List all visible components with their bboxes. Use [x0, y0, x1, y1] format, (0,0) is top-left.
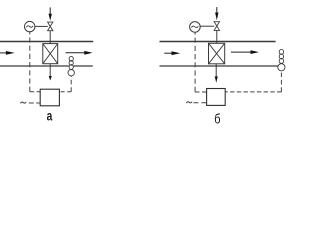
- heat-carrier arrow from exchanger down: [215, 64, 218, 83]
- wire: duct top line (left): [0, 41, 93, 43]
- control line (dashed) from motor down: [194, 32, 196, 92]
- flow arrow outlet (right duct): [231, 50, 259, 54]
- power "~" label at controller input: [20, 102, 26, 104]
- wire: duct bottom line (right): [160, 65, 279, 67]
- heat exchanger W2 (crossed box): [209, 43, 225, 64]
- wire: duct bottom line (left): [0, 65, 93, 67]
- wire: valve stem down to heat exchanger: [216, 30, 218, 43]
- flow arrow inlet (right duct): [164, 51, 180, 55]
- flow arrow inlet (left duct): [0, 51, 15, 55]
- heat exchanger W1 (crossed box): [43, 44, 58, 64]
- control line (dashed) sensor to controller: [225, 91, 281, 93]
- controller box A2: [207, 89, 226, 106]
- control line (dashed) to controller box: [30, 91, 40, 93]
- wire: motor to valve: [35, 25, 48, 27]
- temperature sensor B2 (coil + bulb, at duct outlet): [278, 49, 285, 71]
- actuator motor M2 (circle with ~): [190, 22, 201, 33]
- supply arrow into valve (top, filled): [215, 7, 218, 20]
- flow arrow outlet (left duct): [66, 51, 93, 55]
- temperature sensor B1 (coil + bulb): [68, 56, 74, 76]
- control line (dashed) sensor down: [70, 76, 72, 92]
- svg-text:а: а: [47, 108, 53, 124]
- control line (dashed) sensor to controller: [59, 91, 71, 93]
- actuator motor M1 (circle with ~): [25, 21, 35, 31]
- dashed lead from ~ to controller: [29, 102, 40, 104]
- control line (dashed) from motor down: [29, 32, 31, 92]
- wire: motor to valve: [200, 25, 214, 27]
- svg-text:б: б: [214, 111, 220, 127]
- controller box A1: [40, 89, 59, 106]
- supply arrow into valve (top, filled): [49, 7, 52, 20]
- control valve (two-triangle bowtie): [214, 22, 219, 31]
- control line (dashed) sensor down: [280, 71, 282, 92]
- wire: duct top line (right): [160, 41, 276, 43]
- control line (dashed) to controller box: [195, 91, 207, 93]
- heat-carrier arrow from exchanger down: [49, 64, 52, 81]
- power "~" label at controller input: [186, 102, 192, 104]
- control valve (two-triangle bowtie): [48, 22, 53, 31]
- wire: valve stem down to heat exchanger: [49, 31, 51, 44]
- dashed lead from ~ to controller: [193, 102, 206, 104]
